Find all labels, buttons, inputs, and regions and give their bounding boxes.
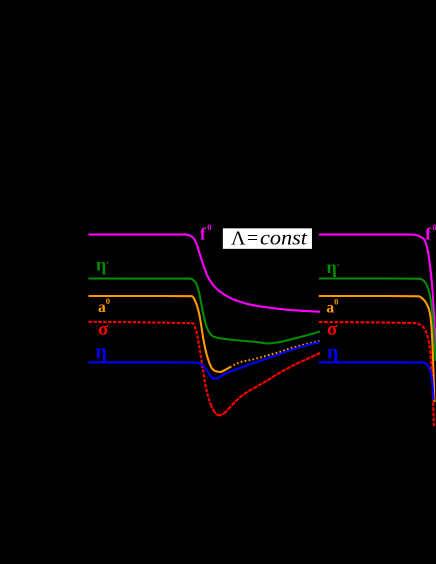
curve sigma left panel flat and drop (red dashed): [89, 322, 211, 403]
curve eta-prime right panel (green): [319, 279, 436, 362]
curve eta-prime left panel (green): [89, 279, 321, 344]
svg-text:Λ=const: Λ=const: [231, 228, 307, 250]
curve f0 left panel (magenta): [89, 235, 321, 312]
curve sigma left panel minimum arc (red nearly solid): [210, 403, 228, 416]
svg-text:σ: σ: [98, 319, 109, 340]
annotation box Lambda = const: [222, 228, 312, 250]
svg-text:η: η: [96, 341, 107, 363]
svg-text:η: η: [327, 341, 338, 363]
curve f0 right panel (magenta): [319, 235, 436, 353]
curve sigma right panel (red dashed): [319, 322, 434, 426]
curve eta right panel (blue): [319, 362, 434, 400]
curve a0 left panel solid part (orange): [89, 296, 231, 372]
svg-text:σ: σ: [327, 319, 338, 340]
curve eta left panel (blue): [89, 342, 321, 379]
curve a0 left panel dotted rising part (orange): [230, 341, 320, 367]
curve sigma left panel rising tail (red dashed dense): [228, 353, 320, 410]
curve a0 right panel (orange): [319, 296, 435, 402]
